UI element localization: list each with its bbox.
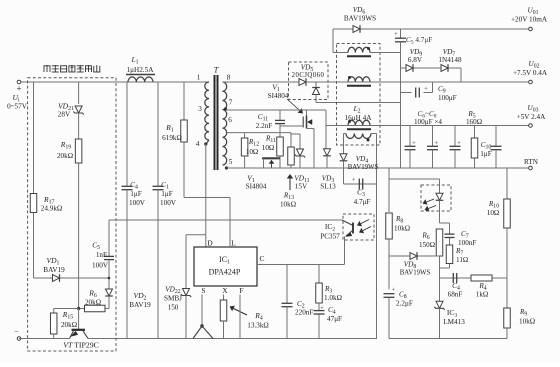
resistor R15 20k xyxy=(50,309,77,339)
svg-text:20CJQ060: 20CJQ060 xyxy=(292,72,325,79)
wire R10 column xyxy=(506,168,508,199)
svg-text:+: + xyxy=(16,84,21,94)
wire 5V rail xyxy=(326,125,530,127)
wire pin7 corner column xyxy=(325,110,327,149)
wire VD21-R19 xyxy=(78,113,80,139)
wire feedback left column 2 xyxy=(388,239,390,289)
wire input + top rail (primary) xyxy=(19,81,200,83)
resistor R1 619k xyxy=(162,120,187,142)
wire bottom rail left xyxy=(19,338,70,340)
svg-text:220nF: 220nF xyxy=(295,309,313,317)
inductor L2 winding2 xyxy=(347,76,371,86)
capacitor C11 2.2nF xyxy=(256,110,285,137)
wire VD22 bottom xyxy=(185,296,187,339)
wire feedback 220 bus xyxy=(109,219,342,221)
diode VD9 6.8V xyxy=(406,48,423,72)
svg-text:+: + xyxy=(424,86,428,93)
mosfet V1a SI4804 top xyxy=(280,110,314,168)
terminal U01 +20V xyxy=(511,7,548,31)
node VD1/C5 junction xyxy=(108,277,111,280)
svg-text:6: 6 xyxy=(228,116,232,124)
svg-text:11Ω: 11Ω xyxy=(456,256,468,264)
svg-text:10Ω: 10Ω xyxy=(262,144,275,152)
diode VD2 xyxy=(105,289,113,296)
diode VD9 6.8V branch xyxy=(401,68,462,82)
svg-text:68nF: 68nF xyxy=(448,291,463,299)
svg-text:+: + xyxy=(320,305,324,312)
resistor R7 11 xyxy=(440,238,469,268)
capacitor Cs 4.7uF top right xyxy=(394,29,432,168)
svg-text:SI4804: SI4804 xyxy=(268,92,289,100)
transistor VT TIP29C xyxy=(63,330,99,350)
wire R6b to VD8 node xyxy=(439,256,441,278)
capacitor C6 100uF xyxy=(405,126,417,169)
svg-text:13.3kΩ: 13.3kΩ xyxy=(247,322,269,330)
capacitor C1 column top xyxy=(157,82,159,186)
label C6-C8 100uFx4 xyxy=(414,110,442,126)
resistor R19 20k xyxy=(57,139,82,163)
wire feedback top xyxy=(389,178,440,180)
diode VD5b vertical xyxy=(312,82,400,103)
svg-text:VT TIP29C: VT TIP29C xyxy=(63,341,99,350)
capacitor C10 1uF xyxy=(480,126,501,169)
terminal U02 +7.5V xyxy=(513,60,548,84)
svg-text:+20V 10mA: +20V 10mA xyxy=(511,16,548,24)
wire base xyxy=(78,309,80,330)
svg-text:28V: 28V xyxy=(58,111,71,119)
resistor R11 10 xyxy=(262,135,284,169)
label D pin xyxy=(207,239,213,248)
terminal - input xyxy=(14,327,21,340)
svg-text:100V: 100V xyxy=(160,199,177,207)
svg-text:4.7μF: 4.7μF xyxy=(354,198,371,206)
resistor R12 10 xyxy=(241,133,259,168)
svg-text:24.9kΩ: 24.9kΩ xyxy=(41,205,63,213)
svg-text:SL13: SL13 xyxy=(320,183,336,191)
wire VD21 column top xyxy=(78,82,80,104)
svg-text:BAV19WS: BAV19WS xyxy=(348,164,379,171)
resistor R4b 1k xyxy=(471,275,492,299)
resistor R3 1.0k xyxy=(316,265,342,304)
wire F pin xyxy=(239,295,241,339)
svg-text:PC357: PC357 xyxy=(320,233,340,241)
resistor R4 13.3k xyxy=(220,300,227,339)
transformer T core xyxy=(214,66,219,171)
wire feedback mid xyxy=(440,277,508,279)
svg-text:BAV19: BAV19 xyxy=(43,266,65,274)
capacitor C5 1nF 100V xyxy=(92,242,114,270)
svg-text:C: C xyxy=(259,254,264,263)
svg-text:LM413: LM413 xyxy=(443,318,465,326)
svg-text:4: 4 xyxy=(196,140,200,148)
wire base node to R15 xyxy=(54,308,79,310)
svg-text:10kΩ: 10kΩ xyxy=(280,201,296,209)
label R13 arrow xyxy=(280,174,296,209)
wire pin7 xyxy=(226,109,327,111)
capacitor C4b 47uF xyxy=(314,303,343,339)
diode VD1 BAV19 wire xyxy=(34,277,110,279)
svg-text:20kΩ: 20kΩ xyxy=(57,152,73,160)
svg-text:+: + xyxy=(435,140,439,147)
svg-text:10Ω: 10Ω xyxy=(246,148,259,156)
svg-text:150Ω: 150Ω xyxy=(419,241,435,249)
svg-text:S: S xyxy=(201,286,205,295)
capacitor C8b 100uF xyxy=(450,126,462,169)
wire feedback left column xyxy=(388,168,390,212)
inductor L2 winding3 xyxy=(347,120,371,129)
svg-text:BAV19WS: BAV19WS xyxy=(400,270,431,277)
svg-text:7: 7 xyxy=(229,99,233,107)
svg-text:0~57V: 0~57V xyxy=(7,103,28,111)
inductor L2 dashed box xyxy=(337,44,381,146)
resistor R13 10k xyxy=(288,133,295,168)
diode VD6 BAV19WS xyxy=(333,6,401,33)
inductor L1 1uH2.5A xyxy=(126,55,155,82)
svg-text:100nF: 100nF xyxy=(458,239,476,247)
svg-text:1N4148: 1N4148 xyxy=(438,56,462,64)
terminal U03 +5V xyxy=(517,104,546,127)
svg-text:+: + xyxy=(394,31,398,38)
svg-text:+5V 2.4A: +5V 2.4A xyxy=(517,113,546,121)
label ethernet power interface (CJK) xyxy=(44,65,101,72)
wire bottom rail mid xyxy=(88,338,377,340)
svg-text:SMBJ: SMBJ xyxy=(164,295,182,303)
wire C4 column bottom xyxy=(126,190,128,339)
svg-text:10Ω: 10Ω xyxy=(487,209,500,217)
label V1b SI4804 xyxy=(246,174,267,191)
svg-text:+: + xyxy=(457,140,461,147)
svg-text:10kΩ: 10kΩ xyxy=(394,225,410,233)
wire R1 top xyxy=(183,82,185,120)
wire pin8 rail xyxy=(223,81,300,83)
wire C7/R7 branch xyxy=(440,223,450,234)
wire IC2 emitter down xyxy=(344,237,346,265)
svg-text:8: 8 xyxy=(227,74,231,82)
capacitor C4c 68nF xyxy=(448,273,463,299)
svg-text:1: 1 xyxy=(197,74,201,82)
resistor R6b 150 xyxy=(419,229,443,256)
resistor R5 160 xyxy=(466,110,482,168)
optocoupler IC2 internals xyxy=(342,220,371,237)
svg-text:X: X xyxy=(222,286,228,295)
zener VD22 SMBJ150 xyxy=(164,286,191,312)
wire VD11 branch xyxy=(291,134,300,149)
svg-text:F: F xyxy=(239,286,243,295)
resistor R10 10 xyxy=(487,199,511,228)
op-amp U1 IC1 DPA424P box xyxy=(194,247,257,286)
label V1 SI4804 top with arrow xyxy=(268,83,303,114)
diode VD1 BAV19 xyxy=(43,256,65,282)
capacitor C8e 2.2uF xyxy=(384,287,413,339)
transformer secondary winding 8-7-6-5 xyxy=(223,74,233,170)
ground S apex xyxy=(193,324,213,338)
capacitor C1 1uF 100V xyxy=(153,181,177,207)
zener VD11 15V xyxy=(294,149,309,191)
svg-text:−: − xyxy=(14,327,19,336)
wire R17 column lower xyxy=(33,213,35,279)
inductor L2 winding4 xyxy=(344,134,377,185)
ethernet interface dashed box xyxy=(28,78,116,351)
svg-text:100V: 100V xyxy=(129,199,146,207)
terminal RTN xyxy=(524,158,539,170)
diode VD8 BAV19WS xyxy=(389,252,440,276)
inductor L2 winding1 xyxy=(333,47,401,56)
capacitor C5 1nF column top xyxy=(108,220,110,256)
zener IC3 LM413 xyxy=(434,278,465,339)
wire VD22 elbow from D wire xyxy=(186,235,206,289)
svg-text:3: 3 xyxy=(198,105,202,113)
wire C pin xyxy=(257,254,345,265)
svg-text:1nF: 1nF xyxy=(96,251,107,259)
svg-text:1μF: 1μF xyxy=(130,190,141,198)
wire feedback bottom rail xyxy=(389,338,507,340)
wire X pin xyxy=(223,295,225,301)
svg-text:100V: 100V xyxy=(92,262,109,270)
svg-text:1.0kΩ: 1.0kΩ xyxy=(324,294,342,302)
wire 7.5V rail xyxy=(306,81,531,83)
svg-text:+: + xyxy=(392,287,396,294)
svg-text:1kΩ: 1kΩ xyxy=(476,291,489,299)
label L2 16uH 4A xyxy=(345,104,373,122)
wire L pin xyxy=(230,198,236,248)
svg-text:DPA424P: DPA424P xyxy=(209,268,241,277)
node base junction xyxy=(77,307,80,310)
svg-text:+: + xyxy=(412,140,416,147)
svg-text:619kΩ: 619kΩ xyxy=(162,134,182,142)
diode VD4 BAV19WS xyxy=(340,145,379,184)
resistor R17 24.9k xyxy=(30,194,62,213)
capacitor C4 column top xyxy=(126,82,128,186)
svg-text:+: + xyxy=(352,177,356,184)
svg-text:160Ω: 160Ω xyxy=(466,118,482,126)
label IC2 PC357 xyxy=(320,222,340,241)
mosfet V1b SI4804 bottom xyxy=(262,158,280,168)
zener VD21 28V xyxy=(58,102,84,119)
svg-text:6.8V: 6.8V xyxy=(408,56,423,64)
wire VD2 to R6 xyxy=(108,296,110,309)
svg-text:10kΩ: 10kΩ xyxy=(519,318,535,326)
optocoupler LED xyxy=(423,179,444,223)
wire R17 column upper xyxy=(33,82,35,194)
svg-text:D: D xyxy=(207,239,213,248)
svg-text:1μH2.5A: 1μH2.5A xyxy=(127,66,155,74)
svg-text:20kΩ: 20kΩ xyxy=(85,299,101,307)
wire C1 column bottom xyxy=(157,190,159,339)
svg-text:BAV19WS: BAV19WS xyxy=(344,15,376,23)
diode VD7 1N4148 xyxy=(438,48,462,72)
svg-text:L: L xyxy=(231,239,236,248)
optocoupler LED dashed box xyxy=(421,185,451,211)
svg-text:100μF: 100μF xyxy=(438,94,457,102)
diode VD3 SL13 xyxy=(320,149,336,191)
svg-text:5: 5 xyxy=(229,158,233,166)
capacitor C3 4.7uF xyxy=(344,177,377,207)
resistor R6 20k xyxy=(79,289,109,312)
wire R19 down to base node xyxy=(78,163,80,309)
wire R1 bottom to L elbow xyxy=(184,142,230,198)
wire C5 to VD2 xyxy=(108,260,110,289)
svg-text:+7.5V 0.4A: +7.5V 0.4A xyxy=(513,69,548,77)
diode VD5a 20CJQ060 xyxy=(289,62,329,100)
svg-text:RTN: RTN xyxy=(524,158,539,166)
capacitor C4 1uF 100V xyxy=(122,181,146,207)
resistor R9 10k xyxy=(504,278,535,339)
label S X F pins xyxy=(201,286,243,295)
svg-text:100μF ×4: 100μF ×4 xyxy=(414,118,442,126)
capacitor C7 100nF xyxy=(445,230,477,247)
svg-text:SI4804: SI4804 xyxy=(246,183,267,191)
wire VD6 branch corner xyxy=(332,29,334,53)
svg-text:15V: 15V xyxy=(295,183,308,191)
wire pin4 to D pin xyxy=(205,144,207,247)
wire U01 rail right xyxy=(401,28,529,30)
wire pin6 xyxy=(227,132,291,134)
svg-text:47μF: 47μF xyxy=(327,315,342,323)
wire winding4 right column xyxy=(376,184,378,339)
svg-text:1μF: 1μF xyxy=(161,190,172,198)
svg-text:2.2nF: 2.2nF xyxy=(256,122,273,130)
transformer primary winding 1-3-4 xyxy=(196,74,209,149)
optocoupler IC2 PC357 xyxy=(343,214,374,240)
wire R10 to mid xyxy=(506,228,508,278)
label R4 with arrow xyxy=(230,306,269,330)
wire RTN rail xyxy=(227,167,531,169)
capacitor C2 220nF xyxy=(282,265,314,339)
svg-text:2.2μF: 2.2μF xyxy=(396,300,413,308)
svg-text:T: T xyxy=(214,66,219,75)
capacitor C7b 100uF xyxy=(427,126,439,169)
wire S pin xyxy=(201,295,203,327)
svg-text:1μF: 1μF xyxy=(480,150,491,158)
svg-text:BAV19: BAV19 xyxy=(129,301,151,309)
resistor R8 10k xyxy=(386,213,410,239)
svg-text:20kΩ: 20kΩ xyxy=(61,321,77,329)
label VD2 BAV19 xyxy=(129,291,151,309)
capacitor C9 100uF xyxy=(401,82,457,102)
svg-text:150: 150 xyxy=(168,304,179,312)
terminal + input xyxy=(7,80,28,110)
